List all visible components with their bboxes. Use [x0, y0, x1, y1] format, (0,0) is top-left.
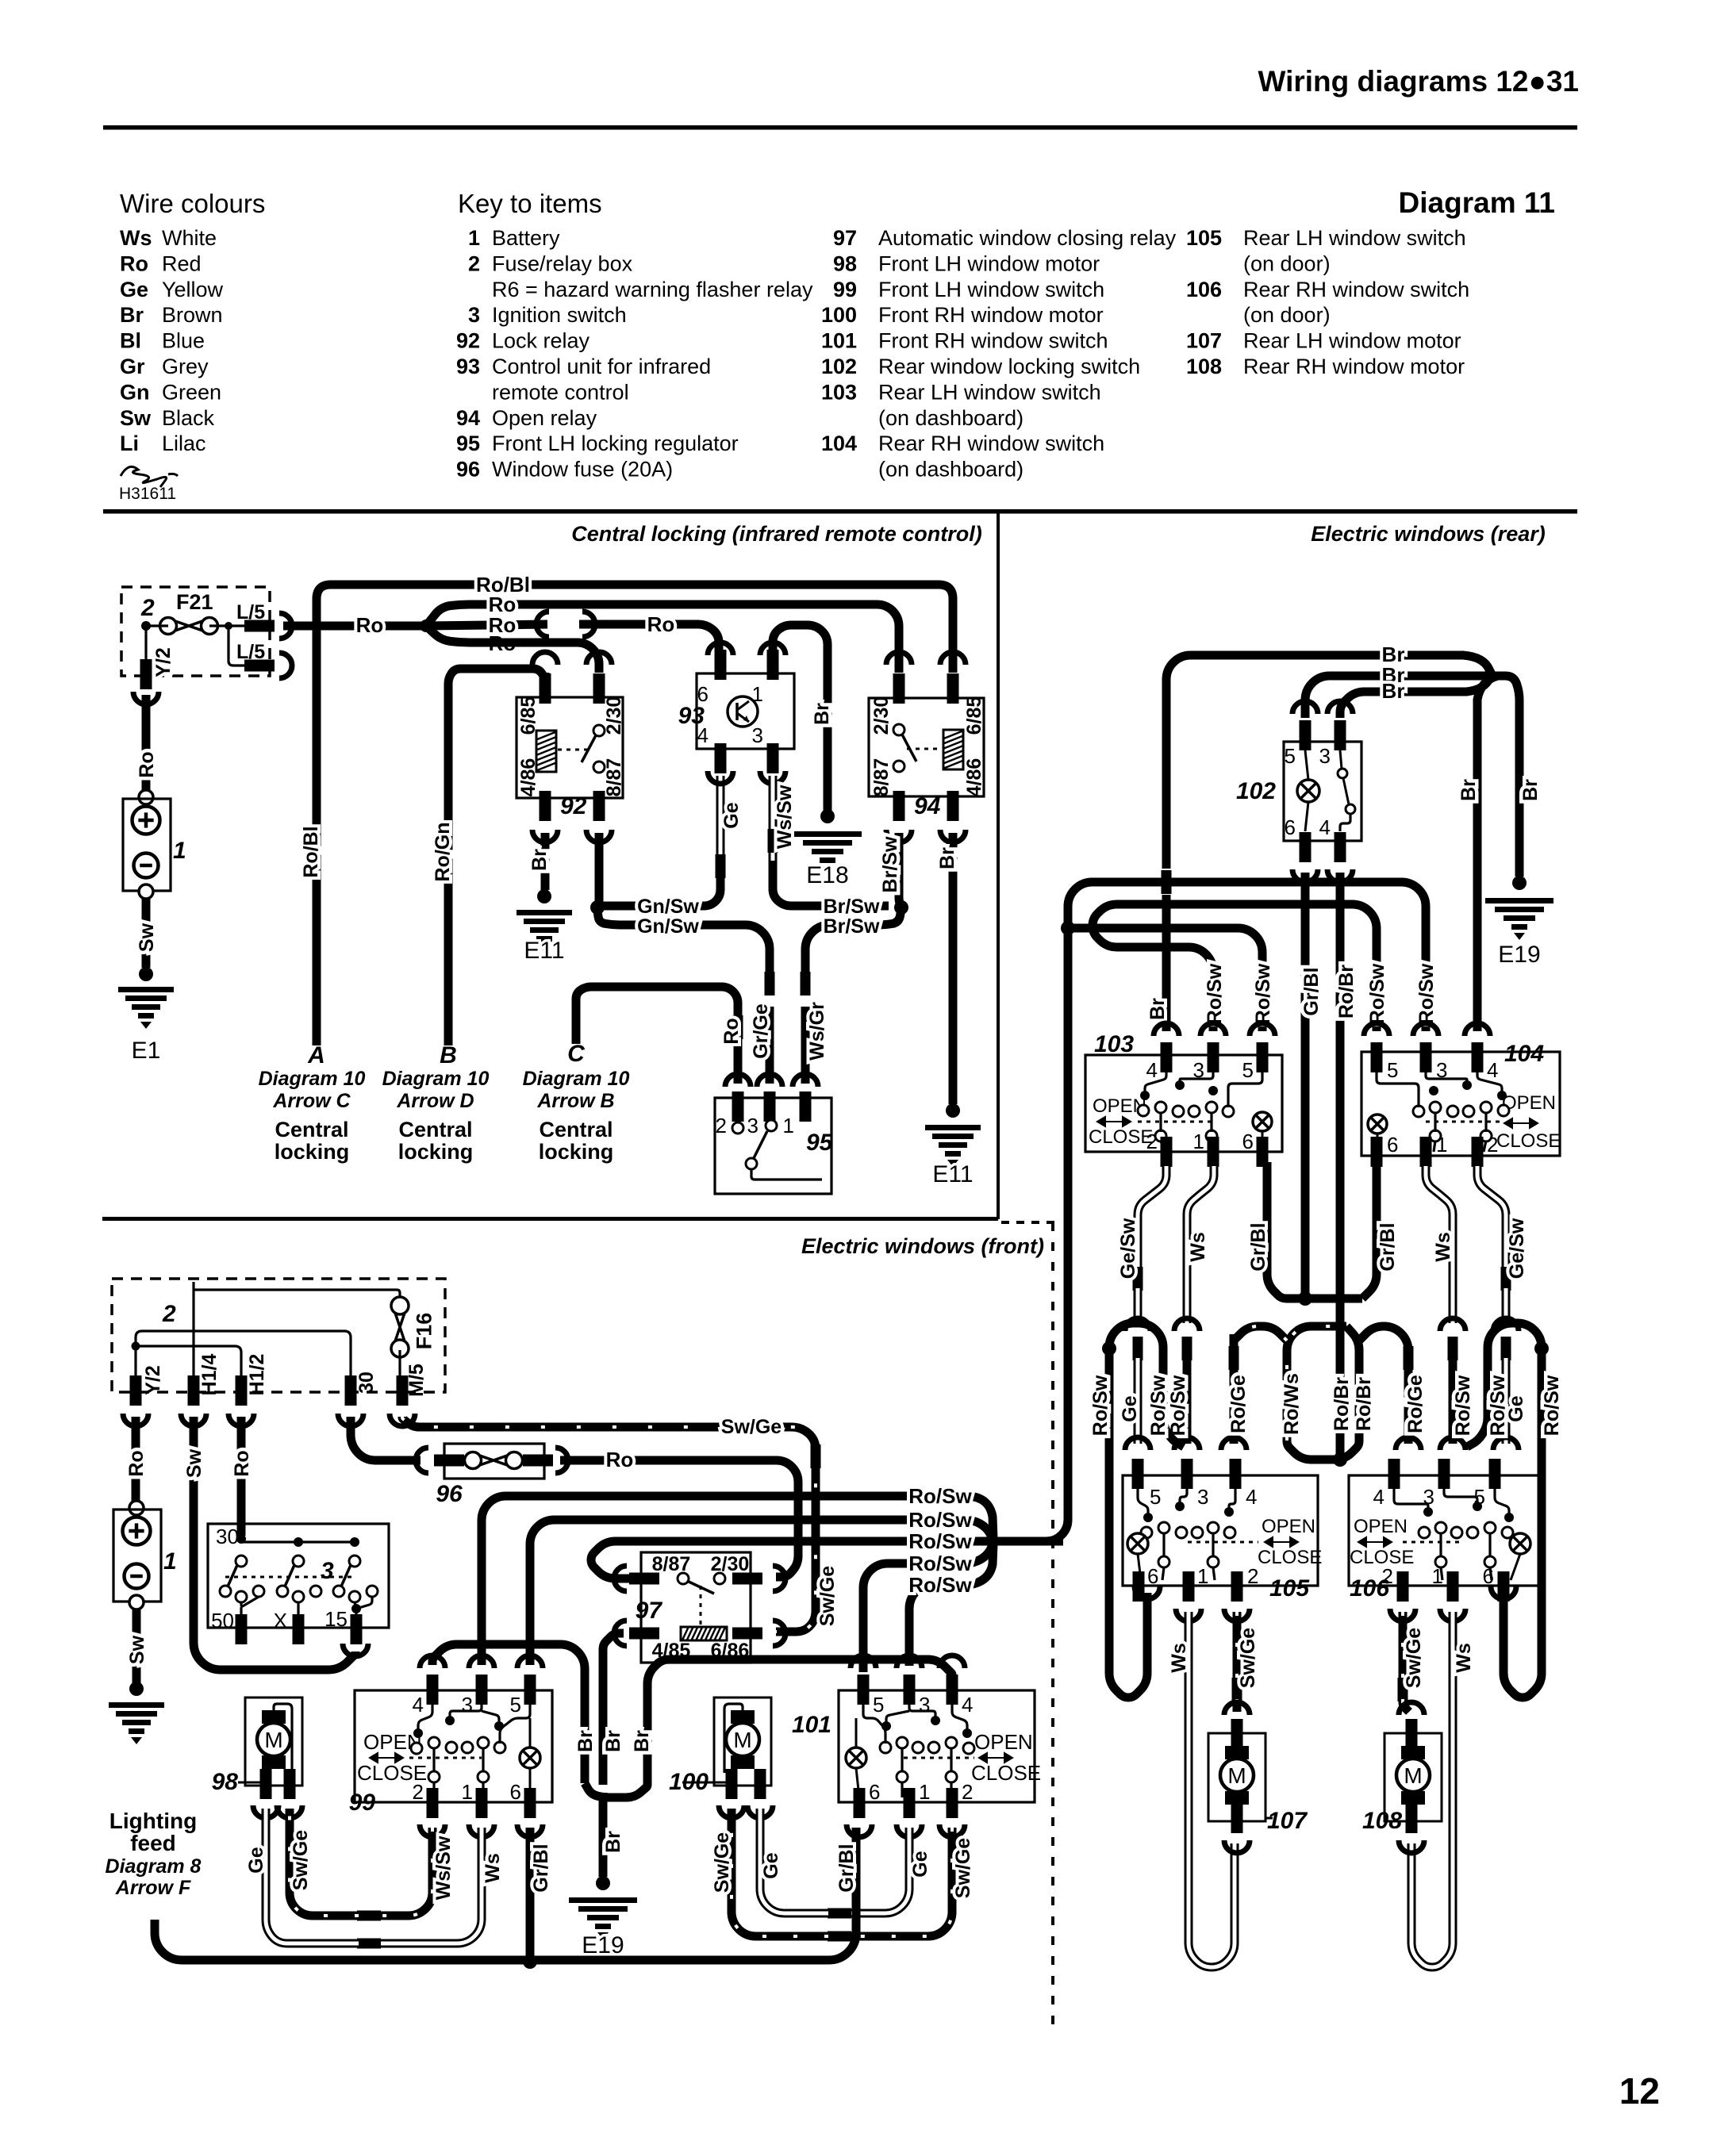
- relay 94 coil: [943, 730, 963, 769]
- label 94 2/30: [870, 696, 893, 735]
- pin box2 H1/4: [188, 1375, 200, 1406]
- svg-text:Br: Br: [528, 849, 551, 871]
- svg-text:93: 93: [456, 355, 480, 378]
- svg-text:Gr/Bl: Gr/Bl: [1300, 967, 1323, 1015]
- svg-text:Black: Black: [162, 406, 215, 430]
- wire Ro to 95 pin 2: [576, 987, 738, 1044]
- svg-text:Diagram 11: Diagram 11: [1399, 186, 1555, 219]
- pin 101 bottom 1200: [947, 1788, 958, 1818]
- svg-text:Blue: Blue: [162, 329, 205, 353]
- label Br E11: [936, 847, 958, 869]
- label Ro 95: [720, 1018, 743, 1044]
- hook 105 pin5: [1125, 1437, 1150, 1450]
- hook 104 top 1862: [1465, 1023, 1490, 1036]
- svg-text:92: 92: [560, 793, 587, 819]
- relay 97 coil: [681, 1627, 727, 1640]
- svg-text:Arrow C: Arrow C: [272, 1090, 351, 1112]
- hook 108 top: [1399, 1702, 1424, 1715]
- wire Ro/Sw line2 (to 99 pin 5): [530, 1520, 912, 1665]
- hook ignition 15: [343, 1644, 368, 1656]
- svg-text:4/86: 4/86: [517, 758, 540, 797]
- svg-text:Ro/Ws: Ro/Ws: [1281, 1373, 1303, 1435]
- wire Br stem to E19: [599, 1793, 608, 1877]
- svg-text:Br: Br: [936, 847, 958, 869]
- svg-text:E18: E18: [806, 862, 848, 888]
- svg-text:Ro/Br: Ro/Br: [1335, 965, 1358, 1019]
- svg-text:CLOSE: CLOSE: [971, 1761, 1041, 1785]
- pin 103 bottom 1529: [1208, 1137, 1219, 1167]
- svg-text:102: 102: [1236, 778, 1276, 804]
- svg-text:Central: Central: [539, 1118, 613, 1141]
- wire 104 int 5: [1377, 1072, 1419, 1107]
- svg-text:B: B: [440, 1042, 457, 1068]
- wire h3 (feed to 103 pin 5): [1068, 928, 1262, 1031]
- break SwGe 100: [828, 1932, 851, 1942]
- svg-text:Gr/Ge: Gr/Ge: [750, 1003, 772, 1059]
- svg-text:92: 92: [456, 329, 480, 353]
- relay 92 coil: [536, 731, 556, 772]
- svg-text:Gr/Bl: Gr/Bl: [530, 1843, 552, 1892]
- label box2 Y/2: [142, 1365, 164, 1395]
- svg-text:Ws: Ws: [1168, 1643, 1190, 1673]
- svg-text:99: 99: [349, 1790, 376, 1816]
- wire 99 int stem1b: [432, 1782, 435, 1797]
- pin 105 bottom 1570: [1231, 1571, 1243, 1602]
- connector L/5 upper: [244, 620, 275, 632]
- hook 97 8/87: [614, 1566, 627, 1591]
- svg-text:15: 15: [325, 1607, 348, 1631]
- hook 106 b2: [1390, 1609, 1415, 1621]
- pin 105 bottom 1509: [1183, 1571, 1195, 1602]
- svg-text:Ro/Gn: Ro/Gn: [432, 823, 454, 882]
- wire Gr/Bl 103 pin6: [1267, 1162, 1291, 1299]
- wire Br/Sw from 94 8/87: [899, 833, 901, 907]
- wire 103 int 5: [1228, 1072, 1262, 1107]
- wire 101 int stem2b: [901, 1782, 903, 1797]
- svg-text:Sw/Ge: Sw/Ge: [1403, 1628, 1425, 1689]
- svg-text:8/87: 8/87: [603, 758, 625, 797]
- wire Ws 99 pin1 to Ge 98: [379, 1828, 482, 1943]
- wire U3 loop: [1467, 1323, 1542, 1447]
- svg-text:1: 1: [173, 838, 186, 864]
- wire 103 int 3a: [1180, 1072, 1213, 1081]
- svg-text:8/87: 8/87: [870, 758, 893, 797]
- label Ws 104: [1432, 1232, 1454, 1262]
- svg-text:feed: feed: [130, 1831, 176, 1855]
- svg-text:6: 6: [869, 1780, 880, 1804]
- svg-text:94: 94: [914, 793, 941, 819]
- svg-text:3: 3: [462, 1693, 473, 1717]
- svg-text:4: 4: [1246, 1485, 1257, 1509]
- svg-text:Br: Br: [1382, 679, 1405, 703]
- hook 100 left: [719, 1805, 744, 1818]
- switch 104 bulb: [1368, 1114, 1387, 1134]
- connector 96 right: [555, 1448, 568, 1473]
- node bottom feed junction: [523, 1955, 537, 1969]
- wire 101 int stem2: [901, 1748, 903, 1772]
- svg-text:6/85: 6/85: [517, 696, 540, 735]
- svg-text:2: 2: [716, 1114, 727, 1137]
- label Sw/Ge 101: [952, 1838, 974, 1899]
- label Sw/Ge 100: [711, 1832, 733, 1893]
- pin ignition 50: [236, 1614, 248, 1644]
- label 100 tick: [682, 1782, 732, 1784]
- svg-text:1: 1: [462, 1780, 473, 1804]
- ignition switch contacts: [236, 1556, 247, 1567]
- pin 98 left: [260, 1769, 272, 1799]
- svg-text:105: 105: [1269, 1575, 1310, 1602]
- pin 103 top 1529: [1208, 1042, 1219, 1072]
- svg-text:4: 4: [1146, 1058, 1158, 1082]
- svg-text:1: 1: [468, 226, 480, 250]
- wire Ge/Sw lower: [1134, 1288, 1143, 1323]
- wire Ro (to unit 93 pin 6): [579, 624, 719, 650]
- wire h1 (feed to 104 pin 3): [1068, 882, 1426, 1031]
- wire 103 int 4: [1145, 1072, 1166, 1091]
- hook 105 pin6: [1135, 1586, 1160, 1599]
- wire Ws/Sw 99 pin2 to Sw/Ge 98: [379, 1828, 432, 1916]
- wire F21 left stub: [146, 624, 168, 627]
- label Br d: [602, 1831, 624, 1853]
- svg-text:93: 93: [678, 703, 705, 729]
- label box2 30: [355, 1371, 378, 1394]
- svg-text:Ro: Ro: [136, 751, 158, 777]
- pin 99 top 545: [427, 1675, 439, 1705]
- pin 106 bottom 1895: [1498, 1571, 1510, 1602]
- label Ro/Br 102: [1335, 965, 1358, 1019]
- wire Ro/Sw line5 fan: [969, 1544, 993, 1585]
- svg-text:H1/2: H1/2: [246, 1354, 268, 1396]
- svg-text:Ro: Ro: [606, 1448, 634, 1471]
- pin 95 1: [800, 1091, 812, 1122]
- label Br E18: [811, 703, 833, 725]
- svg-text:5: 5: [1150, 1485, 1161, 1509]
- svg-text:Sw/Ge: Sw/Ge: [952, 1838, 974, 1899]
- wire 103 bulb lead: [1262, 1131, 1264, 1149]
- svg-text:(on dashboard): (on dashboard): [878, 458, 1023, 481]
- wire Br 93 pin1 to E18: [773, 625, 828, 811]
- wire Ro/Sw line4 (to 101 pin 5): [863, 1563, 912, 1672]
- hook 102 5: [1292, 701, 1318, 714]
- relay 92 dotted link: [558, 749, 593, 751]
- wire Ge 98 left pin: [266, 1809, 359, 1943]
- svg-text:Br/Sw: Br/Sw: [879, 836, 901, 892]
- hook 95 pin1: [793, 1074, 818, 1087]
- label Ge/Sw 104: [1506, 1218, 1528, 1279]
- svg-text:Br/Sw: Br/Sw: [824, 896, 880, 918]
- label 94 8/87: [870, 758, 893, 797]
- svg-text:F21: F21: [176, 590, 213, 614]
- hook L/5 upper: [279, 613, 292, 639]
- svg-text:97: 97: [833, 226, 857, 250]
- wire 106 int c: [1394, 1489, 1428, 1508]
- control unit 93 box: [697, 673, 794, 749]
- svg-text:L/5: L/5: [236, 641, 265, 663]
- label box2 H1/4: [198, 1354, 221, 1396]
- svg-text:Ro/Sw: Ro/Sw: [1452, 1375, 1474, 1436]
- label 8/87: [603, 758, 625, 797]
- hook 97 4/85: [614, 1621, 627, 1646]
- wire Gn/Sw from 92 8/87: [595, 833, 604, 903]
- pin 95 3: [764, 1091, 776, 1122]
- pin 94 4/86: [947, 791, 959, 821]
- svg-text:6: 6: [1242, 1130, 1254, 1153]
- wire 103 stem1b: [1161, 1141, 1163, 1149]
- wire Gr/Bl bar: [1291, 1295, 1362, 1303]
- label Ro/Bl vertical: [300, 826, 322, 877]
- wire Ge 105 pin5: [1134, 1358, 1143, 1444]
- svg-text:Arrow F: Arrow F: [115, 1877, 191, 1899]
- wire 105 stem1: [1162, 1533, 1165, 1557]
- svg-text:30: 30: [216, 1525, 239, 1548]
- switch 104 box: [1361, 1052, 1560, 1156]
- svg-text:95: 95: [456, 432, 480, 455]
- break Sw/Ge 108: [1398, 1678, 1408, 1701]
- svg-text:Ro/Sw: Ro/Sw: [1089, 1375, 1112, 1436]
- svg-text:1: 1: [1197, 1564, 1208, 1588]
- node right of F21: [225, 622, 232, 630]
- switch 106 bulb: [1510, 1533, 1530, 1554]
- svg-text:6: 6: [1285, 815, 1296, 839]
- relay 92 box: [517, 697, 623, 798]
- pin 103 top 1591: [1257, 1042, 1269, 1072]
- pin 102 4: [1335, 832, 1346, 862]
- wire Br right (101 pin4 feed): [647, 1659, 676, 1783]
- pin ignition X: [293, 1614, 305, 1644]
- label Ro/Sw r4: [1252, 963, 1274, 1024]
- label Ro/Sw U1b: [1147, 1375, 1169, 1436]
- break Ro/Ge 106: [1404, 1346, 1414, 1370]
- label 94 4/86: [963, 758, 985, 797]
- pin 100 right: [755, 1769, 766, 1799]
- svg-text:Sw/Ge: Sw/Ge: [1237, 1628, 1259, 1689]
- hook 93 3: [760, 771, 785, 784]
- svg-text:Wire colours: Wire colours: [120, 189, 265, 218]
- svg-text:2/30: 2/30: [711, 1553, 750, 1575]
- break Ws: [1182, 1337, 1192, 1360]
- svg-text:2/30: 2/30: [870, 696, 893, 735]
- pin 105 top 1434: [1132, 1459, 1144, 1489]
- label Ro/Ws: [1281, 1373, 1303, 1435]
- svg-text:Arrow D: Arrow D: [396, 1090, 474, 1112]
- wire Gr/Bl 104 pin6: [1362, 1162, 1377, 1299]
- central locking box right border: [997, 512, 1000, 1219]
- label Ro/Sw U3b: [1487, 1375, 1509, 1436]
- svg-text:4: 4: [1319, 815, 1331, 839]
- svg-text:Ws/Sw: Ws/Sw: [432, 1836, 455, 1900]
- wire Ro/Ge 105 pin4: [1230, 1337, 1239, 1444]
- connector break Ro a: [536, 612, 549, 637]
- wire Br horizontal to 101 pin4: [671, 1659, 952, 1676]
- wire Br center: [599, 1654, 608, 1785]
- hook 103 top 1470: [1154, 1023, 1179, 1036]
- wire Ro/Sw line1 (to 99 pin 3): [482, 1496, 912, 1665]
- wire 101 bulb leads: [855, 1718, 858, 1747]
- switch 105 contacts: [1143, 1513, 1153, 1522]
- svg-text:Ro/Bl: Ro/Bl: [300, 826, 322, 877]
- svg-text:Diagram 10: Diagram 10: [523, 1068, 630, 1090]
- svg-text:96: 96: [456, 458, 480, 481]
- hook 93 4: [708, 771, 733, 784]
- wire Br line1 (to 103 pin 4): [1166, 655, 1465, 869]
- pin 105 top 1557: [1230, 1459, 1242, 1489]
- pin 104 bottom 1735: [1371, 1137, 1383, 1167]
- svg-text:Red: Red: [162, 251, 202, 275]
- wire Sw/Ge 98 right pin: [290, 1809, 359, 1916]
- svg-text:Gn/Sw: Gn/Sw: [637, 896, 699, 918]
- wire 105 stem1b: [1162, 1567, 1164, 1580]
- svg-text:Ignition switch: Ignition switch: [492, 303, 627, 327]
- switch 99 bulb: [520, 1747, 540, 1768]
- wire 99 int stem1: [432, 1748, 435, 1772]
- hook box2 30: [338, 1414, 363, 1426]
- label 4/86: [517, 758, 540, 797]
- label Br 104: [1457, 779, 1480, 801]
- hook 103 top 1529: [1200, 1023, 1226, 1036]
- pin 100 left: [726, 1769, 738, 1799]
- hook 104 top 1735: [1364, 1023, 1389, 1036]
- wire 104 stem1b: [1484, 1141, 1486, 1152]
- svg-text:Ro/Sw: Ro/Sw: [1415, 963, 1438, 1024]
- svg-text:Y/2: Y/2: [152, 647, 175, 677]
- wire Gr/Ge to 95 pin 3: [766, 1007, 774, 1084]
- svg-text:Diagram 8: Diagram 8: [106, 1855, 202, 1878]
- fuse/relay box 2 (front): [112, 1279, 445, 1392]
- wire 104 bulb lead: [1377, 1134, 1379, 1152]
- wire Ro/Sw main feed to rear: [992, 941, 1068, 1541]
- header rule: [103, 125, 1577, 130]
- hook Ws 104: [1440, 1318, 1465, 1331]
- svg-text:Y/2: Y/2: [142, 1365, 164, 1395]
- wire Br merge: [585, 1783, 647, 1797]
- svg-text:E19: E19: [1498, 942, 1540, 968]
- label Ro front: [125, 1450, 148, 1476]
- pin 94 2/30: [893, 673, 905, 704]
- node ignition 30: [236, 1534, 246, 1544]
- wire 106 stem2: [1439, 1533, 1442, 1557]
- hook 106 pin5: [1493, 1437, 1519, 1450]
- hook 105 pin3: [1174, 1437, 1200, 1450]
- svg-text:H31611: H31611: [119, 485, 176, 503]
- svg-text:Rear LH window switch: Rear LH window switch: [878, 380, 1101, 404]
- svg-text:Front LH window motor: Front LH window motor: [878, 251, 1100, 275]
- svg-text:Central: Central: [275, 1118, 348, 1141]
- pin 92 4/86: [540, 791, 551, 821]
- relay 94 box: [869, 698, 984, 796]
- wire 102 sw c: [1340, 814, 1350, 831]
- svg-text:102: 102: [821, 355, 857, 378]
- wire 102 bulb lead2: [1305, 802, 1308, 831]
- wire ignition 50b: [240, 1607, 242, 1615]
- hook 104 top 1797: [1413, 1023, 1438, 1036]
- break Ge 100: [828, 1909, 851, 1919]
- wire Sw/Ge 105 pin2: [1233, 1612, 1242, 1680]
- pin 97 6/86: [732, 1628, 762, 1640]
- switch 104 contacts: [1497, 1091, 1507, 1100]
- wire Ro/Sw line3 fan: [969, 1537, 1063, 1546]
- fuse 96 box: [444, 1444, 544, 1479]
- relay 97 switch: [678, 1573, 689, 1584]
- svg-text:Rear window locking switch: Rear window locking switch: [878, 355, 1140, 378]
- svg-text:Gn/Sw: Gn/Sw: [637, 915, 699, 938]
- window fuse 96: [465, 1452, 523, 1469]
- svg-text:Rear RH window motor: Rear RH window motor: [1243, 355, 1465, 378]
- svg-text:Electric windows (front): Electric windows (front): [801, 1234, 1044, 1258]
- svg-text:101: 101: [821, 329, 857, 353]
- wire Ro (fan to relay 94 pin 2/30): [426, 604, 899, 673]
- svg-text:6/85: 6/85: [963, 696, 985, 735]
- svg-text:F16: F16: [412, 1313, 436, 1350]
- svg-text:Sw/Ge: Sw/Ge: [290, 1830, 312, 1891]
- svg-text:3: 3: [321, 1558, 334, 1584]
- wire box2 internal d: [136, 1346, 241, 1376]
- wire Br/Sw lower (to Ws/Gr): [805, 909, 901, 996]
- svg-text:6: 6: [510, 1780, 521, 1804]
- node E1: [139, 967, 153, 981]
- fuse F16: [391, 1297, 409, 1357]
- svg-text:Grey: Grey: [162, 355, 209, 378]
- label 98 tick: [238, 1782, 266, 1784]
- svg-text:Ws: Ws: [120, 226, 152, 250]
- svg-text:8/87: 8/87: [652, 1553, 691, 1575]
- svg-text:locking: locking: [398, 1140, 474, 1164]
- svg-text:Ge: Ge: [245, 1847, 267, 1873]
- svg-text:remote control: remote control: [492, 380, 629, 404]
- break Ro 95: [733, 1015, 743, 1039]
- ground E11 left: [517, 910, 572, 915]
- hook 100 right: [747, 1805, 773, 1818]
- hook box2 H1/4: [181, 1414, 206, 1426]
- pin 94 8/87: [893, 791, 905, 821]
- label Gr/Bl 103: [1247, 1222, 1269, 1271]
- break Ws/Sw: [768, 829, 778, 853]
- wire Sw/Ge 100 left pin: [732, 1809, 828, 1936]
- label Ro/Ge 106: [1404, 1375, 1427, 1433]
- hook 98 left: [253, 1805, 278, 1818]
- label Ge 105: [1119, 1395, 1141, 1421]
- wire Ge/Sw 103 pin2: [1138, 1166, 1166, 1269]
- label Ws/Sw: [432, 1836, 455, 1900]
- svg-text:Wiring diagrams 12●31: Wiring diagrams 12●31: [1258, 65, 1580, 98]
- svg-text:Ro/Ge: Ro/Ge: [1227, 1375, 1250, 1433]
- label Ro/Sw r3: [1204, 963, 1226, 1024]
- wire 105 bulb lead: [1138, 1554, 1141, 1580]
- svg-text:Central: Central: [398, 1118, 472, 1141]
- svg-text:Ro: Ro: [356, 613, 384, 637]
- pin 101 bottom 1083: [854, 1788, 866, 1818]
- svg-text:Sw: Sw: [183, 1448, 205, 1478]
- pin 106 top 1884: [1489, 1459, 1501, 1489]
- wire 104 int 3a: [1426, 1072, 1467, 1081]
- wire 30 to fuse 96: [351, 1417, 421, 1460]
- hook 105 b2: [1224, 1609, 1250, 1621]
- wire Sw/Ge 106 pin2: [1399, 1612, 1408, 1680]
- wire Ro to 95 pin 2 lower: [734, 1033, 743, 1084]
- wire 99 int stem2: [482, 1748, 484, 1772]
- wire Sw/Ge M/5 to relay 97 6/86: [402, 1417, 816, 1632]
- break Ws 104: [1448, 1337, 1458, 1360]
- label Br b: [602, 1730, 624, 1752]
- pin 102 3: [1335, 720, 1346, 750]
- pin 104 bottom 1797: [1420, 1137, 1432, 1167]
- wire 104 stem2: [1434, 1112, 1436, 1132]
- label Ws/Sw: [774, 785, 796, 849]
- pin 92 6/85: [540, 673, 551, 704]
- svg-text:Front RH window motor: Front RH window motor: [878, 303, 1104, 327]
- label Gr/Bl 101: [835, 1843, 858, 1892]
- hook 92 6/85: [532, 652, 558, 665]
- hook 106 pin4: [1396, 1437, 1421, 1450]
